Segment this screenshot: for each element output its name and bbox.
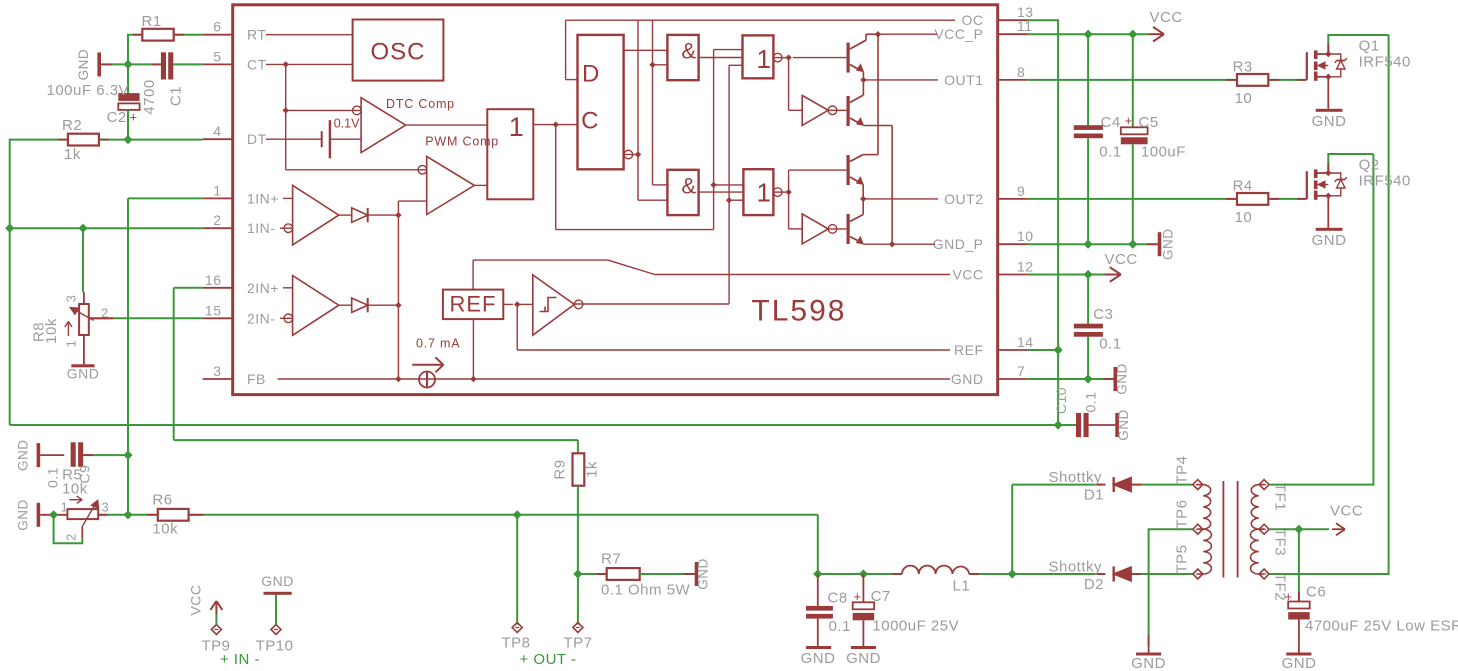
svg-text:2: 2	[213, 212, 221, 228]
svg-text:10: 10	[1235, 209, 1253, 226]
svg-text:C4: C4	[1101, 114, 1121, 131]
wire REF node to schmitt	[517, 303, 533, 305]
node pin2 left corner	[5, 224, 14, 233]
node Q1 source junction	[1325, 74, 1331, 80]
test point TP10 diamond	[271, 625, 281, 635]
transformer secondary terminal TF3	[1259, 524, 1269, 534]
wire REF internal line to pin 14	[517, 349, 950, 351]
svg-text:0.1: 0.1	[1099, 336, 1121, 353]
wire VCC internal line	[655, 274, 950, 276]
capacitor C1	[161, 52, 166, 79]
transistor Q2 source wire	[1318, 195, 1329, 197]
wire Q2 drain up to TF1 rail	[1328, 154, 1373, 173]
svg-text:3: 3	[102, 500, 110, 515]
node Qbar junction	[635, 151, 641, 157]
svg-text:Q1: Q1	[1359, 37, 1380, 54]
svg-text:D1: D1	[1084, 487, 1104, 504]
svg-text:TP10: TP10	[256, 638, 294, 655]
resistor R1	[142, 29, 173, 41]
svg-text:VCC: VCC	[188, 584, 204, 615]
node C10 line junction	[1054, 420, 1063, 429]
resistor R9 vertical	[573, 453, 585, 485]
wire CT to DTC comp input	[286, 109, 361, 111]
OR gate lower output box	[743, 169, 773, 215]
svg-text:GND: GND	[1282, 655, 1317, 671]
wire GND to C9	[40, 454, 64, 456]
node C8 junction	[813, 569, 822, 578]
svg-text:TF1: TF1	[1272, 483, 1289, 511]
svg-text:10k: 10k	[43, 318, 60, 344]
Qbar output bubble	[624, 150, 633, 159]
svg-text:0.1 Ohm 5W: 0.1 Ohm 5W	[601, 582, 691, 599]
test point TP7 diamond	[573, 623, 583, 633]
svg-text:1: 1	[64, 340, 79, 348]
svg-text:C8: C8	[828, 589, 848, 606]
node C4 top junction	[1084, 30, 1093, 39]
transistor Q1 bulk arrow	[1318, 65, 1328, 67]
potentiometer R8 adjust arrow	[67, 323, 69, 337]
upper 1 output bubble	[773, 57, 788, 59]
wire R2 right to pin 4	[99, 139, 203, 141]
wire feedback bottom horizontal	[556, 229, 714, 231]
transistor Q1 source wire	[1318, 76, 1329, 78]
diode D2 Shottky	[1114, 567, 1131, 581]
svg-text:OUT2: OUT2	[944, 191, 983, 207]
svg-text:0.1: 0.1	[1083, 392, 1099, 413]
wire C8 to C7 segment	[818, 573, 864, 575]
ground bar C10	[1115, 413, 1119, 437]
svg-text:C6: C6	[1306, 584, 1326, 601]
capacitor C5 polarized	[1121, 127, 1148, 134]
wire to inverter 2 input	[789, 228, 803, 230]
svg-text:2: 2	[64, 533, 79, 541]
ground bar pin 7	[1114, 367, 1118, 391]
wire C5 bottom segment	[1132, 144, 1134, 244]
node schmitt to lower 1 gate	[726, 197, 732, 203]
wire VCC_P feed down to Q3 collector	[877, 34, 879, 154]
wire amp1 output	[339, 214, 352, 216]
resistor R3	[1237, 74, 1268, 86]
node OUT1 junction	[860, 77, 866, 83]
svg-text:D: D	[582, 61, 600, 88]
wire C8 top	[817, 574, 819, 606]
node C5 bottom junction	[1128, 240, 1137, 249]
wire C1 right to pin 5	[173, 63, 202, 65]
svg-text:GND: GND	[261, 573, 294, 589]
svg-text:OUT1: OUT1	[944, 72, 983, 88]
svg-text:5: 5	[213, 48, 221, 64]
wire pin 8 to R3	[1028, 79, 1237, 81]
node C9 junction	[123, 451, 132, 460]
inverting input bubble amp2	[284, 314, 293, 323]
wire TF3 to VCC node	[1269, 528, 1329, 530]
wire to lower AND gate input B	[638, 199, 667, 201]
node CT branch to DTC	[283, 107, 289, 113]
node pin 14 junction	[1054, 345, 1063, 354]
wire battery to DTC comp	[330, 138, 361, 140]
svg-text:1: 1	[61, 500, 69, 515]
schmitt output bubble	[574, 300, 583, 309]
wire 1IN- input	[280, 227, 293, 229]
transistor Q3 collector	[850, 155, 863, 162]
wire TF3 down to C6	[1298, 529, 1300, 601]
ground C8	[806, 646, 831, 649]
transformer core bars	[1222, 481, 1224, 578]
resistor R4	[1237, 193, 1268, 205]
svg-text:Q2: Q2	[1359, 156, 1380, 173]
VCC arrow pin 11	[1149, 33, 1164, 35]
inverting input bubble DTC	[353, 106, 362, 115]
wire schmitt output vertical to gates	[728, 65, 730, 303]
svg-text:R2: R2	[62, 117, 82, 134]
wire Q2 source to ground	[1327, 196, 1329, 228]
node upper AND input junction	[649, 62, 655, 68]
svg-text:GND: GND	[76, 49, 91, 81]
node pin2 to R8	[78, 224, 87, 233]
inverter 1 triangle	[802, 95, 828, 125]
svg-text:GND: GND	[1312, 232, 1347, 249]
svg-text:L1: L1	[953, 578, 971, 595]
svg-text:15: 15	[205, 302, 222, 318]
wire TP6 to ground	[1149, 529, 1193, 646]
wire OC down to D input	[565, 20, 567, 79]
svg-text:GND: GND	[1161, 228, 1176, 260]
wire 2IN+ input	[283, 287, 293, 289]
ground bar TP10	[264, 592, 292, 595]
AND gate upper box	[667, 35, 698, 80]
svg-text:D2: D2	[1084, 576, 1104, 593]
wire D2 to TP5	[1131, 573, 1193, 575]
svg-text:FB: FB	[247, 371, 266, 387]
node L1 D1 D2 junction	[1008, 569, 1017, 578]
node pin 7 C3 junction	[1084, 374, 1093, 383]
wire OUT1 internal line	[863, 79, 938, 81]
OR gate 1 box	[487, 109, 533, 199]
svg-text:10k: 10k	[62, 481, 88, 498]
wire OR output to D flipflop C input	[533, 124, 577, 126]
wire upper driver down to inverter 1	[788, 58, 790, 111]
pin 9 OUT2 stub	[998, 198, 1028, 200]
potentiometer R5 body	[67, 509, 98, 519]
node Q2 drain junction	[1325, 170, 1331, 176]
capacitor C6 polarized	[1288, 602, 1310, 609]
svg-text:RT: RT	[247, 27, 266, 43]
pin 8 OUT1 stub	[998, 79, 1028, 81]
node FB junction	[395, 376, 401, 382]
ground TP6	[1136, 653, 1161, 656]
schmitt trigger triangle	[533, 275, 575, 335]
transistor Q1 internal base bar	[846, 43, 849, 73]
wire D1 line left	[1012, 484, 1105, 486]
transformer primary terminal TP4	[1193, 480, 1203, 490]
wire pin 10 to ground	[1028, 243, 1158, 245]
inverting input bubble amp1	[284, 224, 293, 233]
wire schmitt output	[574, 303, 729, 305]
node TP8 junction	[513, 510, 522, 519]
transformer secondary terminal TF1	[1259, 480, 1269, 490]
svg-text:GND: GND	[1312, 113, 1347, 130]
wire to lower AND gate input A	[653, 184, 668, 186]
wire summing node to PWM comp	[398, 200, 426, 202]
capacitor C3	[1074, 324, 1103, 329]
ground bar left of C9	[37, 443, 41, 467]
wire pin 14 to junction	[1028, 349, 1058, 351]
pin 15 2IN- stub	[203, 317, 233, 319]
wire GND to C1	[101, 63, 161, 65]
inverter 2 triangle	[802, 214, 828, 244]
lower 1 output bubble	[773, 191, 788, 193]
svg-text:9: 9	[1017, 183, 1025, 199]
wire junction down to C10 line	[1057, 350, 1059, 425]
svg-text:2IN+: 2IN+	[247, 280, 279, 296]
node C4 bottom junction	[1084, 240, 1093, 249]
node C7 junction	[859, 569, 868, 578]
VCC arrow pin 12	[1105, 274, 1120, 276]
svg-text:3: 3	[213, 363, 221, 379]
wire R8 wiper to pin 15	[89, 317, 203, 319]
wire R8 bottom to ground	[83, 335, 85, 364]
svg-text:TP4: TP4	[1174, 455, 1191, 484]
wire GND to R5	[40, 514, 67, 516]
wire TF1 to Q2 drain vertical	[1269, 154, 1373, 485]
pin 7 GND stub	[998, 378, 1028, 380]
svg-text:C7: C7	[871, 588, 891, 605]
svg-text:0.7 mA: 0.7 mA	[416, 337, 460, 351]
inverter 1 bubble	[828, 106, 837, 115]
svg-text:+: +	[854, 589, 862, 604]
wire pin 13 to REF net	[1028, 20, 1058, 350]
svg-text:10: 10	[1017, 228, 1034, 244]
body diode Q1	[1328, 54, 1341, 61]
node OR output junction	[553, 121, 559, 127]
wire C9 to pin1 node	[83, 454, 128, 456]
wire C1 C2 connection down	[127, 64, 129, 93]
wire VCC diagonal	[608, 260, 655, 274]
svg-text:16: 16	[205, 272, 222, 288]
svg-text:REF: REF	[954, 342, 984, 358]
transistor Q2 internal base bar	[846, 96, 849, 126]
ground C6	[1286, 653, 1311, 656]
wire RT to OSC	[266, 34, 353, 36]
pin 5 CT stub	[203, 63, 233, 65]
svg-text:VCC_P: VCC_P	[934, 26, 983, 42]
wire TF2 to Q1 drain vertical	[1269, 35, 1389, 574]
svg-text:7: 7	[1017, 363, 1025, 379]
wire R7 to ground	[640, 573, 695, 575]
diode D1 Shottky	[1114, 478, 1131, 492]
ground Q1	[1316, 109, 1343, 112]
pin 14 REF stub	[998, 349, 1028, 351]
svg-text:+: +	[1285, 589, 1293, 604]
node R9 R7 TP7 junction	[573, 569, 582, 578]
wire R9 bottom to R7 node	[577, 486, 579, 574]
test point TP8 diamond	[512, 623, 522, 633]
node C5 top junction	[1128, 30, 1137, 39]
svg-text:C5: C5	[1139, 114, 1159, 131]
svg-text:C3: C3	[1093, 306, 1113, 323]
wire inverter 1 output to Q2 base	[828, 109, 846, 111]
inductor L1 coils	[902, 566, 969, 574]
svg-text:C2: C2	[107, 109, 127, 126]
pin 3 FB stub	[203, 378, 233, 380]
svg-text:GND: GND	[1115, 363, 1130, 395]
wire REF node down to pin14 line	[516, 304, 518, 350]
wire C8 bottom to ground	[817, 619, 819, 646]
svg-text:6: 6	[213, 19, 221, 35]
wire C4 top segment	[1087, 34, 1089, 125]
wire DT to battery	[266, 138, 322, 140]
REF block box	[443, 290, 503, 320]
svg-text:1IN-: 1IN-	[247, 220, 275, 236]
wire VCC_P internal line	[878, 33, 937, 35]
svg-text:0.1V: 0.1V	[334, 117, 360, 131]
op-amp error amp 1 triangle	[293, 185, 339, 245]
wire schmitt to upper 1 gate input	[729, 64, 742, 66]
svg-text:10k: 10k	[152, 521, 178, 538]
svg-text:10: 10	[1235, 90, 1253, 107]
transistor Q3 emitter with arrow	[850, 177, 861, 183]
inverter 2 bubble	[828, 225, 837, 234]
transformer secondary winding coils	[1251, 485, 1264, 530]
wire CT vertical branch	[285, 64, 287, 169]
resistor R6	[158, 509, 189, 521]
wire 2IN- input	[280, 317, 293, 319]
svg-text:Shottky: Shottky	[1048, 469, 1102, 486]
svg-text:TP5: TP5	[1174, 544, 1191, 573]
svg-text:TL598: TL598	[751, 294, 846, 327]
svg-text:&: &	[681, 173, 696, 198]
node CT junction	[283, 61, 289, 67]
wire to inverter 1 input	[789, 109, 803, 111]
wire down to R9	[577, 440, 579, 453]
wire pin16 horizontal to R9	[174, 439, 578, 441]
svg-text:1: 1	[213, 182, 221, 198]
node feedback to lower 1 gate	[710, 182, 716, 188]
pin 4 DT stub	[203, 138, 233, 140]
wire C7 to L1	[863, 573, 902, 575]
transistor Q4 internal base bar	[846, 214, 849, 244]
potentiometer R5 adjust arrow	[70, 499, 82, 501]
capacitor C7 polarized	[853, 602, 875, 609]
svg-text:VCC: VCC	[1330, 503, 1363, 520]
wire FB to GND internal line	[278, 378, 950, 380]
op-amp PWM Comp triangle	[427, 156, 475, 214]
wire upper AND output	[699, 57, 743, 59]
svg-text:R3: R3	[1233, 59, 1253, 76]
wire R6 right long line	[189, 514, 818, 516]
wire OC branch vertical 2	[652, 20, 654, 185]
node Q2 source junction	[1325, 193, 1331, 199]
svg-text:C: C	[581, 107, 599, 134]
svg-text:4700uF 25V Low ESR: 4700uF 25V Low ESR	[1305, 618, 1458, 635]
wire pin 16 vertical down	[173, 288, 175, 440]
wire Q2 emitter to GND_P vertical	[863, 125, 892, 127]
svg-text:1k: 1k	[64, 146, 81, 163]
wire to upper AND gate input B	[653, 64, 668, 66]
svg-text:GND: GND	[1116, 409, 1131, 441]
svg-text:VCC: VCC	[1105, 251, 1138, 268]
svg-text:IRF540: IRF540	[1359, 172, 1411, 189]
transistor Q2 gate bar	[1306, 171, 1308, 199]
svg-text:REF: REF	[450, 292, 497, 317]
node Q1 collector on VCC_P	[875, 31, 881, 37]
VCC arrow TP9	[215, 602, 217, 614]
wire feedback to upper 1 gate input	[714, 49, 743, 51]
svg-text:GND: GND	[846, 650, 881, 667]
wire diode1 to summing node	[368, 214, 399, 216]
body diode Q2	[1328, 173, 1341, 180]
svg-text:4: 4	[213, 123, 221, 139]
wire feedback vertical to gates	[713, 50, 715, 230]
pin 11 VCC_P stub	[998, 33, 1028, 35]
ground R8	[71, 364, 94, 367]
transistor Q1 collector	[850, 40, 866, 49]
ground C7	[851, 646, 876, 649]
wire schmitt to lower 1 gate input	[729, 199, 743, 201]
diode amp1 output	[352, 208, 368, 222]
transistor Q2 channel segments	[1314, 169, 1318, 178]
svg-text:1: 1	[757, 44, 772, 74]
diode amp2 output	[352, 298, 368, 312]
VCC arrow TF3	[1332, 528, 1344, 530]
node junction C1 C2 R1	[123, 60, 132, 69]
svg-text:3: 3	[64, 295, 79, 303]
svg-text:1k: 1k	[584, 461, 601, 478]
svg-text:Shottky: Shottky	[1048, 559, 1102, 576]
wire pin 16 line	[174, 287, 203, 289]
svg-text:R9: R9	[552, 459, 569, 479]
wire D2 line left	[1012, 573, 1105, 575]
node summing junction 1	[395, 212, 401, 218]
wire R2 left corner down	[10, 140, 68, 229]
op-amp U1 TL598 IC body outline	[233, 5, 998, 395]
wire C3 bottom to pin 7 line	[1087, 337, 1089, 379]
wire Q1 source to ground	[1327, 77, 1329, 109]
svg-text:TP7: TP7	[563, 635, 592, 652]
wire Q1 drain up to TF2 rail	[1328, 35, 1388, 54]
transformer primary terminal TP6	[1193, 524, 1203, 534]
transistor Q1 channel segments	[1314, 50, 1318, 59]
node OUT2 junction	[860, 196, 866, 202]
wire REF top to VCC line	[472, 260, 474, 290]
svg-text:GND: GND	[16, 440, 31, 472]
battery 0.1V long plate	[329, 120, 331, 158]
node REF bottom junction	[470, 376, 476, 382]
wire R4 to Q2 gate	[1268, 198, 1305, 200]
svg-text:14: 14	[1017, 334, 1034, 350]
capacitor C4	[1074, 125, 1103, 130]
svg-text:GND: GND	[1131, 655, 1166, 671]
transistor Q3 internal base bar	[846, 155, 849, 185]
pin 13 OC stub	[998, 19, 1028, 21]
wire C7 bottom to ground	[862, 620, 864, 646]
node Q1 drain junction	[1325, 51, 1331, 57]
potentiometer R8 body	[79, 304, 89, 335]
ground Q2	[1316, 228, 1343, 231]
svg-text:CT: CT	[247, 56, 267, 72]
wire OC internal line	[566, 19, 955, 21]
OSC block box	[353, 20, 444, 81]
svg-text:TF3: TF3	[1272, 528, 1289, 556]
wire R5 wiper loop	[81, 526, 83, 538]
wire upper driver to Q1 base	[793, 57, 847, 59]
pin 2 1IN- stub	[203, 227, 233, 229]
node lower driver junction	[785, 189, 791, 195]
wire pin 11 to VCC arrow	[1028, 33, 1149, 35]
wire Q output to upper AND gate	[624, 49, 668, 51]
pin 12 VCC stub	[998, 274, 1028, 276]
wire C3 top segment	[1087, 275, 1089, 324]
